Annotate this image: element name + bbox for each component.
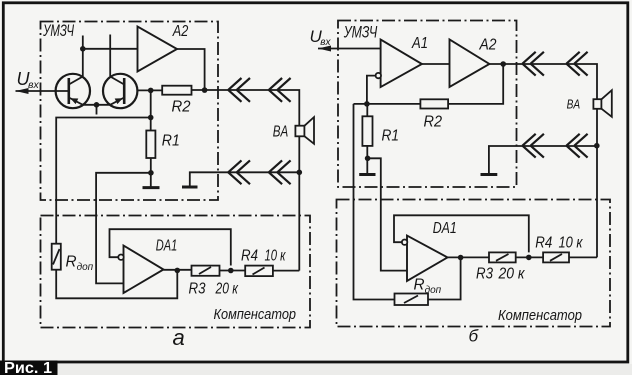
svg-text:20 к: 20 к [215, 280, 239, 297]
wire A2 output to right corner [489, 64, 597, 99]
wire A1 output to A2 input [422, 63, 450, 65]
resistor R1 (right) [362, 116, 372, 146]
wire R1 vertical [366, 104, 368, 174]
svg-text:УМЗЧ: УМЗЧ [42, 22, 74, 40]
input arrow Uвх (right) [318, 46, 331, 52]
connector bottom pair 1 [228, 160, 250, 184]
dash-dot box Компенсатор (right) [337, 200, 611, 327]
svg-text:A2: A2 [172, 23, 189, 40]
wire ground2 stub to lower connector [190, 172, 299, 186]
wire R3 to R4 [516, 256, 543, 258]
wire R4 to right vertical [569, 256, 597, 258]
figure caption badge [0, 361, 58, 375]
junction R1 top [148, 88, 154, 94]
svg-text:R2: R2 [424, 114, 443, 131]
wire R1 bottom to DA1 noninverting input [96, 173, 151, 284]
svg-text:DA1: DA1 [433, 220, 457, 237]
svg-text:R4: R4 [241, 247, 258, 264]
svg-text:10 к: 10 к [265, 247, 287, 264]
connector top pair 2 [269, 78, 291, 102]
connector top pair 1 (right) [522, 52, 544, 76]
wire R1 branch [150, 90, 152, 186]
junction R1-Rдоп node [148, 115, 154, 121]
svg-text:Рис. 1: Рис. 1 [4, 360, 52, 375]
wire R1 bottom to DA1 noninverting [368, 158, 407, 270]
wire ground3 stub to lower connector [489, 146, 597, 174]
svg-text:R1: R1 [162, 133, 180, 150]
wire A2 out down to R2 [448, 64, 503, 104]
wire DA1 inverting feedback loop [394, 215, 529, 252]
svg-text:A1: A1 [411, 35, 428, 52]
resistor R1 [146, 131, 155, 159]
junction DA1 out [175, 268, 181, 274]
wire node down to Rдоп [354, 104, 395, 300]
resistor R2 [162, 86, 191, 95]
wire R2 to corner BA line [192, 90, 300, 126]
op-amp A2 [138, 27, 178, 72]
input arrow Uвх [16, 88, 29, 94]
junction speaker bottom [297, 170, 303, 176]
svg-text:Компенсатор: Компенсатор [498, 308, 582, 324]
junction R3-R4 [228, 268, 234, 274]
op-amp A1 [376, 40, 422, 88]
junction DA1 out (right) [458, 255, 464, 261]
ground 2 [182, 186, 198, 189]
connector bottom pair 1 (right) [522, 134, 544, 158]
resistor R3 (adjustable) [192, 266, 220, 276]
loudspeaker BA (right) [593, 90, 611, 117]
loudspeaker BA [295, 117, 314, 144]
wire DA1 inverting feedback loop [110, 229, 231, 265]
connector top pair 1 [228, 78, 250, 102]
svg-text:A2: A2 [479, 37, 497, 54]
svg-text:а: а [173, 325, 185, 350]
connector bottom pair 2 [269, 160, 291, 184]
wire VT1 collector up [82, 36, 84, 77]
svg-text:б: б [469, 327, 480, 346]
wire input Uвх to VT1 base [16, 90, 69, 92]
transistor VT1 [56, 74, 90, 108]
wire collector node to A2 input [83, 48, 138, 50]
svg-text:R2: R2 [172, 99, 191, 116]
wire R2 left to node [354, 103, 421, 105]
svg-text:20 к: 20 к [498, 265, 526, 282]
junction speaker bottom (right) [594, 143, 600, 149]
junction A2 out (right) [500, 61, 506, 67]
junction A2 out [202, 87, 208, 93]
connector top pair 2 (right) [566, 52, 587, 76]
ground under R1 (right) [359, 173, 375, 176]
junction R2-R1 node [364, 101, 370, 107]
wire VT2 base to R2 [137, 89, 162, 91]
ground 3 (right) [481, 173, 498, 176]
wire DA1 output to R3 [448, 256, 490, 258]
svg-text:R1: R1 [382, 128, 400, 145]
ground under R1 [143, 186, 160, 189]
wire speaker down to R4 corner [298, 136, 300, 270]
dash-dot box УМЗЧ (left) [41, 22, 219, 201]
junction R3-R4 (right) [526, 255, 532, 261]
svg-text:DA1: DA1 [156, 237, 178, 254]
junction collector node [80, 46, 86, 52]
resistor R2 (right) [420, 99, 448, 108]
resistor R3 (right adjustable) [489, 252, 516, 262]
op-amp DA1 (right) [402, 236, 448, 281]
wire emitters common [83, 105, 110, 115]
resistor R4 (right adjustable) [543, 252, 569, 262]
svg-text:BA: BA [273, 123, 289, 140]
transistor VT2 [103, 74, 137, 108]
op-amp A2 (right) [450, 40, 490, 88]
wire speaker down to R4 corner [596, 109, 598, 258]
svg-text:УМЗЧ: УМЗЧ [343, 23, 378, 41]
svg-text:R3: R3 [189, 280, 206, 297]
junction R1 bottom [148, 170, 154, 176]
junction R1 bottom (right) [365, 156, 371, 162]
svg-text:R4: R4 [535, 235, 552, 252]
junction emitters [94, 102, 100, 108]
wire input Uвх to A1 [318, 48, 381, 50]
wire DA1 output to R3 [164, 269, 192, 271]
resistor Rдоп (right adjustable) [395, 294, 429, 306]
wire A1 inverting input down [367, 76, 376, 104]
svg-text:BA: BA [567, 97, 581, 112]
wire R4 to right vertical [273, 270, 299, 272]
wire Rдоп right to DA1 output [428, 258, 461, 300]
svg-text:10 к: 10 к [559, 235, 584, 252]
resistor R4 (adjustable) [245, 266, 273, 277]
resistor Rдоп (adjustable) [52, 244, 61, 270]
op-amp DA1 [118, 246, 163, 294]
svg-text:Компенсатор: Компенсатор [214, 307, 297, 323]
dash-dot box УМЗЧ (right) [338, 21, 517, 188]
wire R3 to R4 [220, 270, 246, 272]
wire VT2 collector up [109, 35, 111, 77]
connector bottom pair 2 (right) [566, 134, 587, 158]
svg-text:R3: R3 [476, 265, 493, 282]
wire A2 output down [177, 49, 205, 90]
wire Rдоп bottom to DA1 output [56, 270, 177, 299]
dash-dot box Компенсатор (left) [41, 216, 311, 328]
wire node to Rдоп [56, 118, 151, 244]
